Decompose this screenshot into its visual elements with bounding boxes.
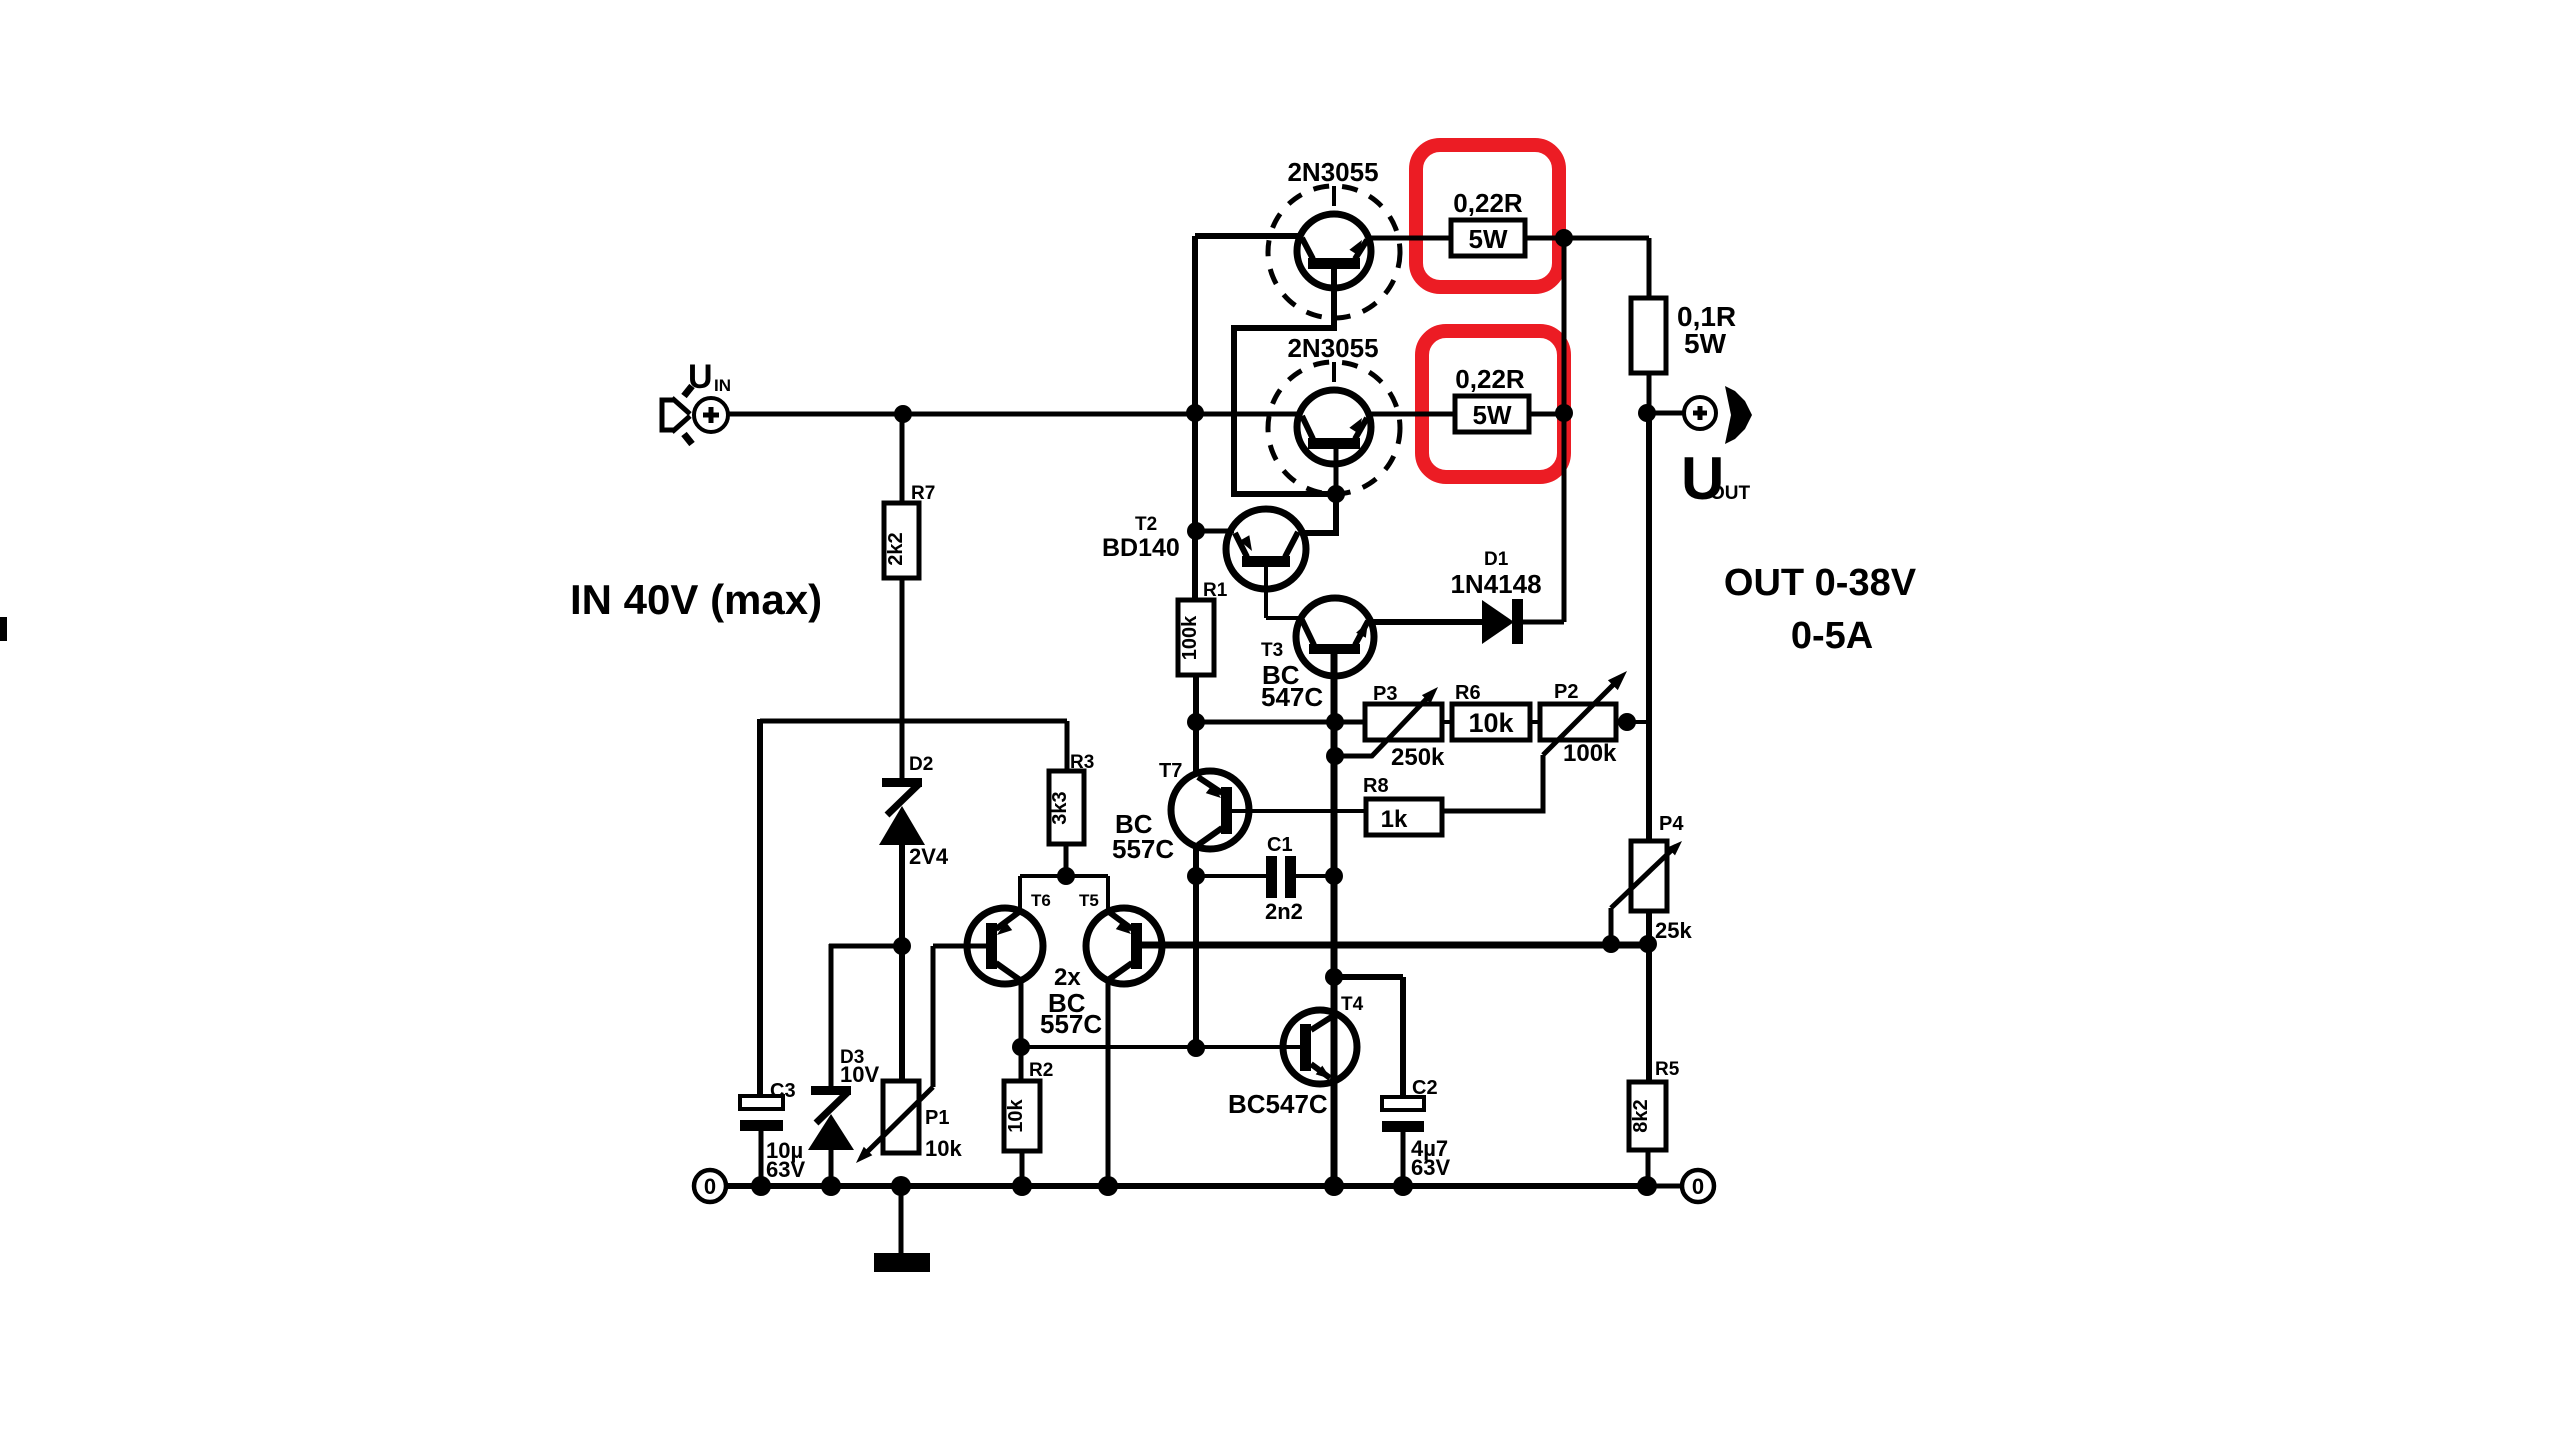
svg-text:25k: 25k xyxy=(1655,918,1692,943)
svg-text:63V: 63V xyxy=(766,1157,805,1182)
svg-text:0-5A: 0-5A xyxy=(1791,615,1873,657)
svg-text:547C: 547C xyxy=(1261,682,1323,712)
svg-text:10k: 10k xyxy=(1468,708,1514,738)
svg-text:U: U xyxy=(688,358,713,396)
svg-text:63V: 63V xyxy=(1411,1155,1450,1180)
svg-text:T3: T3 xyxy=(1261,640,1283,661)
svg-text:2x: 2x xyxy=(1054,964,1081,991)
svg-text:R7: R7 xyxy=(911,483,935,504)
svg-text:100k: 100k xyxy=(1563,740,1617,767)
svg-text:IN 40V (max): IN 40V (max) xyxy=(570,576,822,623)
svg-text:T6: T6 xyxy=(1031,891,1051,910)
svg-text:D1: D1 xyxy=(1484,549,1509,570)
svg-text:P1: P1 xyxy=(925,1107,949,1129)
svg-text:P4: P4 xyxy=(1659,813,1684,835)
svg-text:1N4148: 1N4148 xyxy=(1450,569,1541,599)
svg-text:100k: 100k xyxy=(1179,615,1201,660)
svg-text:P2: P2 xyxy=(1554,681,1578,703)
svg-text:T4: T4 xyxy=(1341,994,1364,1015)
svg-text:P3: P3 xyxy=(1373,683,1397,705)
svg-text:OUT: OUT xyxy=(1710,483,1751,504)
svg-text:R8: R8 xyxy=(1363,775,1389,797)
svg-text:8k2: 8k2 xyxy=(1630,1099,1652,1132)
svg-text:557C: 557C xyxy=(1112,834,1174,864)
svg-text:C3: C3 xyxy=(770,1080,796,1102)
svg-text:C1: C1 xyxy=(1267,834,1293,856)
svg-text:0: 0 xyxy=(1692,1174,1704,1199)
svg-text:C2: C2 xyxy=(1412,1077,1438,1099)
svg-text:5W: 5W xyxy=(1473,400,1512,430)
svg-text:10k: 10k xyxy=(1005,1098,1027,1132)
svg-text:2V4: 2V4 xyxy=(909,844,949,869)
svg-text:R6: R6 xyxy=(1455,682,1481,704)
svg-text:R3: R3 xyxy=(1070,752,1094,773)
svg-text:OUT 0-38V: OUT 0-38V xyxy=(1724,562,1917,604)
svg-text:250k: 250k xyxy=(1391,744,1445,771)
svg-text:2n2: 2n2 xyxy=(1265,899,1303,924)
svg-text:5W: 5W xyxy=(1684,328,1727,359)
svg-text:T5: T5 xyxy=(1079,891,1099,910)
svg-text:557C: 557C xyxy=(1040,1009,1102,1039)
svg-text:R5: R5 xyxy=(1655,1059,1680,1080)
svg-text:T2: T2 xyxy=(1135,514,1157,535)
svg-text:IN: IN xyxy=(714,376,731,395)
svg-text:10k: 10k xyxy=(925,1136,962,1161)
svg-text:T7: T7 xyxy=(1159,760,1182,782)
svg-text:10V: 10V xyxy=(840,1062,879,1087)
svg-text:0,22R: 0,22R xyxy=(1453,188,1523,218)
svg-text:2N3055: 2N3055 xyxy=(1287,157,1378,187)
svg-text:D2: D2 xyxy=(909,754,933,775)
svg-text:3k3: 3k3 xyxy=(1049,791,1071,824)
svg-text:2N3055: 2N3055 xyxy=(1287,333,1378,363)
svg-text:1k: 1k xyxy=(1381,806,1408,833)
svg-text:BC547C: BC547C xyxy=(1228,1089,1328,1119)
svg-text:R1: R1 xyxy=(1203,580,1228,601)
svg-text:0,22R: 0,22R xyxy=(1455,364,1525,394)
svg-text:R2: R2 xyxy=(1029,1060,1053,1081)
svg-text:2k2: 2k2 xyxy=(885,532,907,565)
svg-text:0: 0 xyxy=(704,1174,716,1199)
svg-text:BD140: BD140 xyxy=(1102,534,1180,562)
svg-text:5W: 5W xyxy=(1469,224,1508,254)
